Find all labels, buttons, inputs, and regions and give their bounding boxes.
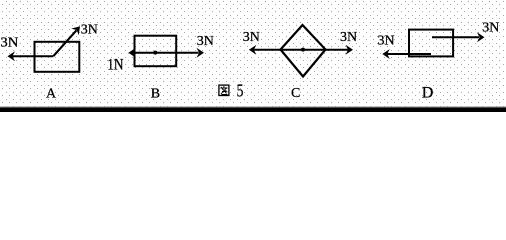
force arrow 3N (B, rightward) arrowhead xyxy=(197,48,205,58)
block D rectangle xyxy=(409,30,453,57)
block A rectangle xyxy=(35,42,80,72)
hanzi 图 (drawn) xyxy=(219,85,229,95)
diamond C xyxy=(281,25,326,77)
force arrow 3N (D, upper rightward) arrowhead xyxy=(477,32,485,42)
force arrow 3N (D, lower leftward) arrowhead xyxy=(382,49,390,59)
force arrow 3N (C, leftward) arrowhead xyxy=(249,45,257,55)
force arrow 1N (B, leftward) arrowhead xyxy=(128,48,136,58)
force arrow 3N (C, rightward) arrowhead xyxy=(346,45,354,55)
block B rectangle xyxy=(135,36,177,66)
force line through C xyxy=(252,49,349,51)
force arrow 3N (A, leftward) arrowhead xyxy=(8,51,16,61)
svg-text:D: D xyxy=(422,85,434,102)
svg-text:A: A xyxy=(46,86,57,101)
svg-text:C: C xyxy=(291,86,300,101)
bottom black bar xyxy=(0,106,506,107)
svg-text:1N: 1N xyxy=(107,57,124,74)
force line through B xyxy=(132,52,199,54)
svg-text:3N: 3N xyxy=(378,34,395,49)
svg-text:B: B xyxy=(151,86,160,101)
svg-text:3N: 3N xyxy=(0,35,18,50)
force arrow 3N (D, upper rightward) line xyxy=(432,36,479,38)
svg-text:5: 5 xyxy=(237,81,244,101)
force arrow 3N (A, leftward) wire/line xyxy=(12,55,53,57)
force arrow 3N (A, diagonal) arrowhead xyxy=(71,26,80,35)
center dot of C xyxy=(301,48,305,52)
svg-text:3N: 3N xyxy=(243,30,260,45)
force arrow 3N (D, lower leftward) line xyxy=(387,53,431,55)
svg-text:3N: 3N xyxy=(197,34,214,49)
dotted paper background xyxy=(0,0,506,112)
svg-text:3N: 3N xyxy=(482,20,499,35)
svg-text:3N: 3N xyxy=(81,23,98,38)
center dot of B xyxy=(153,51,157,55)
force arrow 3N (A, diagonal up-right) line xyxy=(53,30,76,56)
svg-text:3N: 3N xyxy=(340,30,357,45)
